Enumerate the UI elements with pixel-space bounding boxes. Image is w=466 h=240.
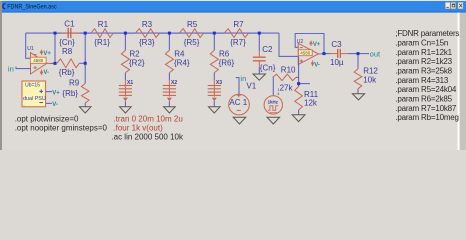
svg-text:.param Rb=10meg: .param Rb=10meg: [395, 113, 458, 122]
svg-text:V+: V+: [52, 90, 60, 96]
FDNR subcircuit X2: [168, 73, 170, 80]
wire stub right of node: [299, 83, 310, 85]
svg-text:V1: V1: [246, 81, 256, 90]
resistor R3: [125, 32, 135, 34]
svg-text:R6: R6: [219, 50, 230, 59]
PSU V+ wire: [46, 91, 52, 93]
svg-text:R12: R12: [363, 66, 378, 75]
svg-text:10µ: 10µ: [330, 58, 344, 67]
svg-text:R9: R9: [69, 79, 80, 88]
capacitor C2: [258, 33, 260, 51]
PSU V- wire: [46, 102, 52, 104]
svg-text:X1: X1: [127, 80, 133, 86]
resistor R7: [214, 32, 224, 34]
window title bar: [0, 0, 466, 1]
svg-text:V+: V+: [43, 51, 51, 57]
op-amp U2: [298, 43, 318, 64]
resistor R11: [295, 87, 303, 111]
svg-text:.param R3=25k8: .param R3=25k8: [395, 67, 452, 76]
svg-text:C1: C1: [64, 19, 75, 28]
resistor R9: [81, 83, 89, 103]
svg-text:X3: X3: [216, 80, 222, 86]
FDNR subcircuit X3: [213, 73, 215, 80]
svg-text:R2: R2: [129, 50, 140, 59]
resistor R1: [85, 32, 91, 34]
close button: [458, 2, 463, 9]
svg-text:.tran 0 20m 10m 2u: .tran 0 20m 10m 2u: [113, 114, 182, 123]
resistor R10: [273, 74, 296, 80]
svg-text:R3: R3: [142, 20, 153, 29]
svg-text:{R4}: {R4}: [174, 58, 190, 67]
voltage source V1: [229, 94, 250, 115]
ground X1: [120, 107, 132, 113]
svg-text:.param R2=1k23: .param R2=1k23: [395, 57, 452, 66]
svg-text:R10: R10: [281, 66, 296, 75]
svg-text:V+: V+: [313, 42, 321, 48]
svg-text:R5: R5: [187, 20, 198, 29]
svg-text:;FDNR parameters: ;FDNR parameters: [395, 29, 459, 38]
svg-text:{Rb}: {Rb}: [62, 89, 78, 98]
wire U1 feedback left: [26, 33, 31, 58]
svg-text:out: out: [370, 49, 381, 58]
node in at V1: [236, 78, 239, 95]
svg-text:{R3}: {R3}: [139, 38, 155, 47]
svg-text:{Rb}: {Rb}: [59, 68, 75, 77]
svg-text:.param R4=313: .param R4=313: [395, 76, 449, 85]
svg-text:R4: R4: [174, 50, 185, 59]
svg-text:FDNR_SineGen.asc: FDNR_SineGen.asc: [7, 3, 57, 10]
svg-text:.param R1=12k1: .param R1=12k1: [395, 48, 452, 57]
wire U2 feedback loop: [295, 34, 324, 54]
capacitor C3: [331, 53, 349, 55]
wire output node to rail: [54, 33, 56, 63]
ground R9: [79, 107, 91, 113]
op-amp U1: [31, 53, 47, 74]
ground R12: [352, 94, 364, 100]
svg-text:.param R5=24k04: .param R5=24k04: [395, 85, 457, 94]
svg-text:{R7}: {R7}: [230, 38, 246, 47]
svg-text:{R2}: {R2}: [129, 58, 145, 67]
svg-text:AC 1: AC 1: [229, 98, 247, 107]
svg-text:.ac lin 2000 500 10k: .ac lin 2000 500 10k: [111, 133, 184, 142]
left window border: [0, 1, 2, 150]
FDNR subcircuit X1: [124, 73, 126, 80]
svg-text:{R5}: {R5}: [184, 38, 200, 47]
wire top rail: [26, 32, 279, 34]
wire rail to U2 + input: [279, 33, 298, 56]
svg-text:4580: 4580: [300, 51, 311, 56]
svg-text:U1: U1: [27, 46, 34, 52]
svg-text:in: in: [240, 74, 246, 83]
restore button: [451, 2, 456, 9]
svg-text:R8: R8: [62, 47, 73, 56]
dual PSU supply box: [22, 81, 46, 107]
wire C1 right node down: [84, 33, 86, 83]
svg-text:R1: R1: [98, 20, 109, 29]
resistor R6: [213, 33, 215, 50]
U2 V+ pin: [310, 41, 312, 46]
svg-text:10k: 10k: [363, 75, 377, 84]
svg-text:V-: V-: [43, 70, 49, 76]
minimize button: [445, 2, 450, 9]
svg-text:{R1}: {R1}: [94, 38, 110, 47]
U2 V- pin: [311, 61, 313, 66]
svg-text:Ub=15: Ub=15: [25, 83, 40, 89]
capacitor C1: [61, 32, 80, 34]
svg-text:V-: V-: [314, 62, 320, 68]
resistor R2: [124, 33, 126, 50]
svg-text:X2: X2: [171, 80, 177, 86]
ground X3: [209, 107, 221, 113]
svg-text:.param R6=2k85: .param R6=2k85: [395, 95, 452, 104]
U2 value 4580: [298, 50, 312, 56]
LTspice window icon: [3, 4, 6, 9]
svg-text:C3: C3: [331, 40, 342, 49]
ground V1: [233, 117, 246, 124]
resistor R8: [57, 59, 80, 68]
svg-text:27k: 27k: [280, 84, 294, 93]
svg-text:dual PSU: dual PSU: [23, 96, 46, 102]
U1 value 4580: [30, 57, 46, 63]
U1 V+ pin: [40, 50, 42, 55]
wire to out: [358, 53, 369, 55]
svg-text:C2: C2: [262, 45, 273, 54]
resistor R5: [169, 32, 179, 34]
ground C2: [253, 74, 265, 80]
svg-text:R7: R7: [233, 20, 244, 29]
U1 V- pin: [40, 70, 42, 75]
svg-text:.four 1k v(out): .four 1k v(out): [113, 124, 163, 133]
ground R11: [292, 115, 305, 122]
svg-text:4: 4: [277, 92, 279, 96]
svg-text:.param Cn=15n: .param Cn=15n: [395, 39, 448, 48]
wire U2 +input down: [298, 56, 300, 86]
wire U2 output: [318, 53, 321, 55]
svg-text:in: in: [8, 64, 14, 73]
right window border: [458, 13, 460, 163]
svg-text:.opt noopiter gminsteps=0: .opt noopiter gminsteps=0: [15, 124, 108, 133]
ground X2: [164, 107, 176, 113]
wire U1 output: [47, 62, 51, 64]
oscillator source X4 1kHz: [272, 77, 274, 95]
ground oscillator: [267, 117, 280, 124]
svg-text:U2: U2: [297, 39, 304, 45]
svg-text:..: ..: [23, 102, 25, 107]
svg-text:1kHz: 1kHz: [268, 99, 279, 104]
junction dots: [54, 32, 57, 35]
svg-text:.param R7=10k87: .param R7=10k87: [395, 104, 457, 113]
svg-text:4580: 4580: [33, 58, 44, 63]
svg-text:V-: V-: [52, 102, 58, 108]
svg-text:12k: 12k: [304, 98, 318, 107]
resistor R12: [357, 54, 359, 69]
svg-text:{R6}: {R6}: [219, 58, 235, 67]
svg-text:{Cn}: {Cn}: [260, 63, 276, 72]
svg-text:.opt plotwinsize=0: .opt plotwinsize=0: [15, 114, 79, 123]
resistor R4: [168, 33, 170, 50]
